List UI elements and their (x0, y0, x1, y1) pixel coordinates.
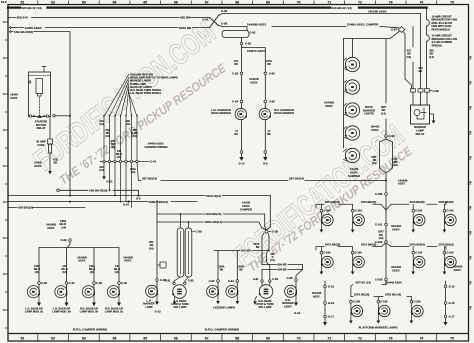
svg-text:64 B: 64 B (1, 0, 7, 4)
svg-text:C-93: C-93 (209, 279, 215, 283)
svg-text:B: B (470, 206, 472, 209)
wire relay to main riser (55, 115, 70, 117)
svg-text:68: 68 (235, 336, 239, 340)
svg-text:C-106: C-106 (353, 300, 361, 304)
svg-text:B: B (470, 106, 472, 109)
license lamp LH (217, 282, 219, 294)
svg-text:SPECIAL: SPECIAL (432, 44, 443, 47)
wire 202A R (14) L1 (8, 195, 270, 197)
platform marker lamp C-104 (351, 209, 354, 212)
svg-text:2070-BK(16): 2070-BK(16) (410, 200, 425, 204)
chain continues to grid (385, 196, 387, 285)
wires looms to stop lamp (174, 277, 189, 282)
connector C-81 RH stop (261, 280, 263, 282)
wire from C-97 to roof marker feed (344, 32, 400, 39)
svg-text:ASSY.: ASSY. (398, 182, 406, 186)
ground at C-105 (320, 265, 322, 272)
wire 14B BK-R (16) top (11, 32, 70, 196)
ground G-14 (241, 153, 243, 156)
svg-text:C-104: C-104 (446, 209, 454, 213)
connector C-101 (385, 223, 388, 226)
svg-text:PLATFORM MARKER LAMPS: PLATFORM MARKER LAMPS (359, 325, 398, 329)
svg-text:(14): (14) (126, 123, 131, 126)
svg-text:75: 75 (450, 1, 454, 5)
harness loop 14407 (222, 30, 249, 37)
platform marker lamp C-106 (377, 300, 380, 303)
callout leader 5 (126, 87, 129, 117)
wire 285 BR license feed (214, 250, 269, 279)
wire below canadian lamps (242, 120, 266, 151)
loom conduits to L.H. stop lamp (177, 228, 184, 277)
svg-text:ASSY.: ASSY. (392, 227, 400, 231)
row 2 marker feed wires (316, 243, 386, 252)
platform marker lamp C-106 (350, 300, 353, 303)
back-up lamp C-48 (93, 284, 95, 294)
svg-text:B: B (470, 256, 472, 259)
connector below left (240, 151, 243, 154)
callout leader 1 (104, 74, 129, 116)
connector C-38 (262, 227, 271, 231)
connector C-100 (385, 193, 388, 196)
svg-text:B: B (470, 81, 472, 84)
wire 292 R to R.H. stop lamp (267, 234, 270, 280)
svg-text:63: 63 (82, 336, 86, 340)
svg-text:(12): (12) (99, 123, 104, 126)
svg-text:C-94: C-94 (232, 100, 238, 104)
ground terminal column left (324, 281, 326, 322)
left margin grid ticks (5, 21, 8, 23)
svg-text:C-83: C-83 (188, 279, 194, 283)
svg-text:8: 8 (3, 201, 5, 204)
svg-text:(14): (14) (149, 246, 154, 250)
svg-text:BK: BK (256, 246, 260, 249)
svg-text:C-98: C-98 (433, 89, 440, 93)
svg-text:206 BK(16): 206 BK(16) (18, 206, 33, 210)
ground at back-up lamp C-40 (66, 294, 68, 302)
back-up lamp C-49 (118, 284, 120, 294)
svg-text:C-93: C-93 (221, 22, 228, 26)
connector C-94 license RH (236, 280, 239, 283)
svg-text:C-40: C-40 (69, 281, 75, 285)
svg-text:ASSY.: ASSY. (34, 164, 42, 168)
svg-text:C-105: C-105 (355, 251, 363, 255)
svg-text:C-92: C-92 (202, 18, 209, 22)
connector C-85 (156, 279, 159, 282)
svg-text:ROOF MARKER: ROOF MARKER (211, 111, 231, 115)
svg-text:G-10: G-10 (123, 203, 129, 207)
platform marker lamp C-105 (443, 251, 446, 254)
svg-text:CAMPER: CAMPER (348, 174, 360, 178)
starter motor relay K1 (29, 72, 51, 117)
roof marker lamp 5 (345, 148, 359, 162)
R.H. rear stop and turn signal lamp (262, 282, 270, 285)
svg-text:904 BR: 904 BR (278, 263, 287, 267)
svg-text:C-38: C-38 (272, 230, 279, 234)
marker lamp relay U1 (413, 92, 427, 105)
svg-text:BK: BK (54, 161, 58, 165)
svg-text:14B BK-R(16): 14B BK-R(16) (14, 30, 33, 34)
ground G-6 (264, 153, 266, 156)
svg-text:2070-BK(16): 2070-BK(16) (439, 200, 454, 204)
svg-text:C-92: C-92 (221, 9, 228, 13)
connector C-98 inline (385, 135, 388, 138)
svg-text:73: 73 (389, 1, 393, 5)
svg-text:C-93: C-93 (232, 72, 238, 76)
connector C-83 RH stop (269, 280, 271, 282)
svg-text:8: 8 (3, 57, 5, 60)
svg-text:285 BR: 285 BR (241, 249, 250, 253)
svg-text:8: 8 (3, 237, 5, 240)
svg-text:207A BK(16): 207A BK(16) (439, 243, 454, 247)
svg-text:14A06B ASSY.: 14A06B ASSY. (247, 22, 267, 26)
svg-text:207A BK(16): 207A BK(16) (361, 243, 376, 247)
svg-text:SIG. LAMP: SIG. LAMP (258, 305, 271, 309)
svg-text:287 BK(14): 287 BK(14) (289, 176, 304, 180)
svg-text:8: 8 (3, 93, 5, 96)
svg-text:G-12: G-12 (155, 310, 162, 314)
svg-text:C-105: C-105 (323, 251, 331, 255)
svg-text:G-6: G-6 (263, 162, 268, 166)
svg-text:69: 69 (266, 336, 270, 340)
callout leader 2 (110, 77, 129, 116)
harness bundle vertical wires (103, 117, 105, 161)
svg-text:2070-BK(16): 2070-BK(16) (361, 200, 376, 204)
platform marker lamp C-104 (412, 209, 415, 212)
back-up lamp C-38 (38, 284, 40, 294)
svg-text:ASSY.: ASSY. (10, 96, 18, 100)
svg-text:(14): (14) (429, 55, 434, 59)
ground at back-up lamp C-38 (38, 294, 40, 302)
svg-text:C-104: C-104 (355, 209, 363, 213)
R.H. marker lamp (295, 281, 297, 294)
connector C-39 (69, 239, 72, 242)
connector row C-41 (100, 161, 141, 163)
svg-text:8: 8 (3, 273, 5, 276)
platform marker lamp C-106 (410, 300, 413, 303)
wire 205A BK (14) horizontal (157, 222, 262, 228)
ground at back-up lamp C-48 (93, 294, 95, 302)
connector below right (264, 151, 267, 154)
svg-text:C-38: C-38 (41, 281, 47, 285)
connector C-38 (38, 282, 41, 285)
svg-text:B: B (470, 156, 472, 159)
svg-text:904 BR: 904 BR (278, 268, 287, 272)
svg-text:B: B (470, 181, 472, 184)
R.H. canadian roof marker lamp (264, 103, 266, 109)
svg-text:2070-BK(16): 2070-BK(16) (325, 200, 340, 204)
svg-text:528 BK-W (14): 528 BK-W (14) (22, 6, 42, 10)
svg-text:(14): (14) (381, 111, 386, 115)
wire pair continues (242, 75, 266, 101)
svg-text:CAMPER WIRING: CAMPER WIRING (144, 145, 167, 149)
connector C-92 loop entry (246, 26, 248, 30)
roof marker lamp 2 (345, 80, 359, 94)
platform marker lamp C-105 (320, 251, 323, 254)
svg-text:207A BK(16): 207A BK(16) (410, 243, 425, 247)
ground at back-up lamp C-49 (118, 294, 120, 302)
wire C-92 to rear harness (upper) (219, 14, 421, 16)
svg-text:ASSY.: ASSY. (313, 294, 321, 298)
svg-text:65: 65 (143, 336, 147, 340)
L.H. canadian roof marker lamp (241, 103, 243, 109)
svg-text:ASSY.: ASSY. (78, 259, 86, 263)
svg-text:C046A ASSY. CAMPER: C046A ASSY. CAMPER (347, 22, 379, 26)
canadian marker wire pair (242, 45, 266, 100)
svg-text:LAMP MOD. 81: LAMP MOD. 81 (25, 310, 44, 314)
svg-text:G-16: G-16 (328, 301, 334, 305)
svg-text:73: 73 (389, 336, 393, 340)
svg-text:G-17: G-17 (328, 315, 334, 319)
svg-text:14C005 ASSY.: 14C005 ASSY. (368, 9, 387, 13)
wire 206 BK (16) L3 (8, 206, 85, 208)
callout leader 7 (129, 93, 137, 116)
svg-text:(14): (14) (132, 135, 137, 138)
ground at C-106 (350, 314, 352, 321)
ground G-11 (103, 174, 105, 177)
starter relay terminals (29, 115, 31, 117)
svg-text:(14): (14) (111, 146, 116, 149)
svg-text:71: 71 (327, 336, 331, 340)
svg-text:R.P.O. CAMPER WIRING: R.P.O. CAMPER WIRING (73, 328, 108, 332)
connector C-98 blocks (411, 89, 416, 92)
wire riser 245 BK to C-98 (420, 14, 422, 89)
connector C-40 (65, 282, 68, 285)
ground at C-104 (443, 223, 445, 230)
svg-text:C-81: C-81 (165, 279, 171, 283)
back-up lamp wire 140C BK-R (38, 258, 40, 282)
ground at marker lamp relay (430, 114, 434, 118)
svg-text:LIGHT: LIGHT (284, 304, 292, 308)
svg-text:(14): (14) (131, 171, 136, 174)
svg-text:15A403 ASSY.: 15A403 ASSY. (385, 280, 402, 284)
roof marker lamp 4 (345, 126, 359, 140)
svg-text:C-98: C-98 (389, 134, 396, 138)
svg-text:8: 8 (3, 129, 5, 132)
svg-text:64: 64 (113, 336, 117, 340)
wire DRT BK chain from junction (385, 39, 387, 135)
svg-text:8: 8 (3, 21, 5, 24)
svg-text:C-39: C-39 (60, 238, 67, 242)
svg-text:904 BK(14): 904 BK(14) (207, 212, 222, 216)
svg-text:BK: BK (234, 63, 238, 66)
svg-text:BK: BK (234, 133, 238, 136)
svg-text:70: 70 (297, 1, 301, 5)
svg-text:(14): (14) (90, 271, 95, 274)
svg-text:(14): (14) (105, 135, 110, 138)
svg-text:DRT BK (14): DRT BK (14) (356, 280, 371, 284)
svg-text:C-104: C-104 (323, 209, 331, 213)
svg-text:8: 8 (3, 165, 5, 168)
svg-text:520 BK-W (14): 520 BK-W (14) (332, 6, 352, 10)
svg-text:G-17: G-17 (449, 315, 455, 319)
ground at C-105 (443, 265, 445, 272)
svg-text:61: 61 (21, 336, 25, 340)
svg-text:67: 67 (205, 1, 209, 5)
svg-text:72: 72 (358, 336, 362, 340)
svg-text:74: 74 (419, 1, 423, 5)
ground at R.H. stop lamp (255, 297, 257, 302)
svg-text:(12): (12) (99, 169, 104, 172)
svg-text:ASSY.: ASSY. (124, 259, 132, 263)
platform marker lamp C-105 (412, 251, 415, 254)
row 1 marker feed wires (316, 204, 386, 210)
ground at C-104 (412, 223, 414, 230)
svg-text:(14): (14) (270, 259, 275, 262)
svg-text:62: 62 (51, 336, 55, 340)
ground G-13 (295, 294, 297, 303)
wire riser 207 BK to C-98 (412, 27, 414, 89)
connector C-95 right (264, 72, 267, 75)
wire 287 BK (14) (138, 180, 386, 182)
svg-text:285 B-R: 285 B-R (17, 16, 29, 20)
fuse F1 20 AMP (49, 117, 51, 139)
ground at L.H. stop lamp (174, 296, 176, 302)
svg-text:B: B (470, 281, 472, 284)
svg-text:B: B (470, 131, 472, 134)
connector C-88 (193, 231, 195, 233)
svg-text:(14): (14) (35, 271, 40, 274)
svg-text:C-49: C-49 (121, 281, 127, 285)
svg-text:C-48: C-48 (96, 281, 102, 285)
svg-text:FUSE: FUSE (37, 143, 44, 147)
wire 14B BK-R (16) lower (57, 189, 60, 192)
svg-text:LIGHTS: LIGHTS (364, 112, 374, 116)
svg-text:BK: BK (267, 133, 271, 136)
svg-text:285 BR: 285 BR (180, 16, 191, 20)
svg-text:14407A ASSY.: 14407A ASSY. (247, 49, 266, 53)
row 3 marker feed wires (351, 285, 412, 301)
svg-text:67: 67 (205, 336, 209, 340)
wire 207A BK to R.H. stop lamp (262, 233, 264, 280)
svg-text:61: 61 (21, 1, 25, 5)
ground at C-106 (410, 314, 412, 321)
svg-text:ASSY.: ASSY. (47, 226, 55, 230)
wire riser from C-97 diamond (404, 32, 412, 89)
svg-text:(14): (14) (61, 225, 66, 229)
svg-text:ASSY.: ASSY. (325, 104, 333, 108)
connector C-94 left (240, 100, 243, 103)
connector C-103 (385, 278, 388, 281)
wire roof marker feed (344, 39, 353, 148)
back-up lamp wire 140 BK-R (66, 258, 68, 282)
connector C-86 (295, 279, 298, 282)
wire 285 B-R (8, 17, 210, 19)
svg-text:ASSY.: ASSY. (371, 128, 379, 132)
svg-text:66: 66 (174, 1, 178, 5)
svg-text:(14): (14) (393, 164, 398, 167)
svg-text:CAMPER: CAMPER (240, 207, 252, 211)
back-up lamp C-40 (66, 284, 68, 294)
platform marker lamp C-104 (443, 209, 446, 212)
svg-text:LAMP MOD. 9F: LAMP MOD. 9F (80, 310, 99, 314)
connector C-93 license LH (217, 280, 220, 283)
connector C-93 canadian feed (241, 38, 243, 43)
svg-text:BK: BK (220, 269, 224, 272)
svg-text:C-83: C-83 (272, 277, 278, 281)
svg-text:C-88: C-88 (196, 230, 203, 234)
svg-text:69: 69 (266, 1, 270, 5)
svg-text:LAMP: LAMP (145, 305, 153, 309)
inline connector on marker riser (160, 262, 166, 268)
svg-text:70: 70 (297, 336, 301, 340)
svg-text:207B BK (16): 207B BK (16) (385, 292, 401, 296)
wire to R.H. marker lamp (296, 269, 303, 278)
wire back-up lamp feed bus (39, 241, 119, 258)
ground at C-105 (412, 265, 414, 272)
svg-text:C-105: C-105 (415, 251, 423, 255)
L.H. marker lamp (156, 281, 158, 294)
wire 904 BR upper (262, 264, 303, 269)
connector C-92 crossover (210, 16, 219, 28)
ground at C-104 (320, 223, 322, 230)
svg-text:L.H. REAR TURN SIGNAL: L.H. REAR TURN SIGNAL (130, 91, 162, 95)
svg-text:ASSY.: ASSY. (392, 268, 400, 272)
wire 528 BK-W (14) main feed bus (8, 6, 427, 8)
svg-text:8: 8 (3, 309, 5, 312)
svg-text:C-81: C-81 (253, 277, 259, 281)
svg-text:RELAY: RELAY (416, 132, 425, 136)
L.H. rear stop and turn signal lamp (173, 285, 187, 299)
svg-text:C-101: C-101 (375, 223, 383, 227)
wires into looms (181, 214, 189, 228)
chain split pair (380, 137, 393, 192)
svg-text:C-94: C-94 (228, 279, 234, 283)
svg-text:ROOF MARKER: ROOF MARKER (274, 111, 294, 115)
svg-text:B: B (470, 306, 472, 309)
svg-text:C-96: C-96 (269, 100, 275, 104)
svg-text:(14): (14) (62, 271, 67, 274)
right margin grid letters (469, 58, 472, 60)
connector C-102 (385, 241, 388, 244)
connector C-48 (93, 282, 96, 285)
svg-text:B: B (470, 56, 472, 59)
wire 203B Y-BK (14) L2 (8, 201, 197, 203)
svg-text:BK: BK (267, 63, 271, 66)
svg-text:205A BK(14): 205A BK(14) (205, 220, 222, 224)
svg-text:B: B (470, 231, 472, 234)
svg-text:72: 72 (358, 1, 362, 5)
svg-text:C-92: C-92 (250, 30, 256, 34)
svg-text:G-14: G-14 (239, 162, 245, 166)
svg-text:71: 71 (327, 1, 331, 5)
svg-text:C-93: C-93 (245, 42, 252, 46)
connector C-81 LH stop (173, 282, 175, 284)
platform marker lamp C-104 (320, 209, 323, 212)
svg-text:64: 64 (113, 1, 117, 5)
wire C-93 branch (lower) (219, 26, 399, 28)
svg-text:C-103: C-103 (375, 278, 383, 282)
svg-text:G-16: G-16 (449, 301, 455, 305)
ground terminal column right (445, 281, 447, 322)
wire 904 BK (14) horizontal (157, 214, 265, 227)
svg-text:LAMP MOD. 81: LAMP MOD. 81 (105, 310, 124, 314)
svg-text:LAMP MOD. 99: LAMP MOD. 99 (52, 310, 71, 314)
connector C-49 (118, 282, 121, 285)
ground at C-105 (352, 265, 354, 272)
ground at C-106 (377, 314, 379, 321)
svg-text:R.P.O. CAMPER WIRING: R.P.O. CAMPER WIRING (205, 328, 240, 332)
svg-text:C-86: C-86 (287, 276, 293, 280)
connector C-96 right (264, 100, 267, 103)
svg-text:C-97: C-97 (391, 28, 398, 32)
svg-text:74: 74 (419, 336, 423, 340)
svg-text:202A R(14): 202A R(14) (206, 194, 221, 198)
svg-text:SIG. LAMP: SIG. LAMP (173, 305, 186, 309)
svg-text:G-15: G-15 (449, 285, 455, 289)
svg-text:68: 68 (235, 1, 239, 5)
svg-text:G-13: G-13 (294, 311, 301, 315)
svg-text:203A BR: 203A BR (179, 26, 192, 30)
